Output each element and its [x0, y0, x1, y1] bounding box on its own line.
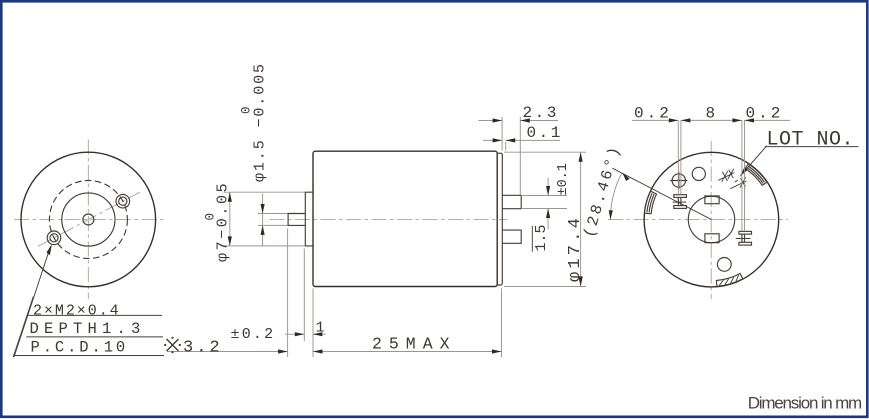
- rear top dim lines: [632, 119, 790, 121]
- dim phi1.5 arrows (outside, pointing to shaft edges): [261, 204, 265, 214]
- dim 25MAX line: [313, 351, 502, 353]
- mounting hole M2 upper right : outer thread circle: [116, 194, 130, 208]
- dim 0.1 line: [483, 139, 560, 141]
- svg-text:8: 8: [706, 104, 716, 122]
- front bearing boss circle (phi7): [62, 193, 115, 246]
- svg-text:1: 1: [316, 320, 325, 337]
- dim phi7 arrows (inside): [228, 192, 232, 202]
- dim terminal arrows: [546, 186, 550, 196]
- svg-text:2.3: 2.3: [523, 104, 559, 122]
- front bearing boss: [305, 192, 313, 246]
- extension lines phi17.4 (right): [504, 152, 586, 286]
- extension line terminal tip up (x520.3): [519, 117, 521, 195]
- rear view outer circle: [644, 152, 779, 287]
- mounting hole M2 upper right : inner circle: [119, 197, 127, 205]
- svg-text:0: 0: [240, 106, 254, 114]
- extension line mounting face (x313): [312, 289, 314, 358]
- terminal lower (side view): [502, 230, 521, 243]
- leader arrowhead at hole: [47, 245, 52, 256]
- rotated label phi17.4: [566, 215, 585, 282]
- small circle top: [692, 167, 705, 180]
- svg-text:0.2: 0.2: [746, 104, 784, 122]
- leader arrowhead: [740, 167, 748, 177]
- dim phi17.4 vertical line: [580, 152, 582, 286]
- terminal T2 (rear view, I-beam shape): [736, 231, 752, 245]
- rear view vertical centerline: [710, 141, 712, 299]
- rear top dim arrows: [669, 118, 679, 122]
- rear ext line pair for T2: [742, 120, 745, 231]
- svg-text:Dimension in mm: Dimension in mm: [748, 394, 862, 413]
- svg-text:2×M2×0.4: 2×M2×0.4: [33, 302, 121, 319]
- terminal upper (side view): [502, 195, 521, 208]
- dim 2.3 arrows: [493, 118, 503, 122]
- svg-text:25MAX: 25MAX: [372, 335, 457, 354]
- dim phi1.5 vertical line: [262, 194, 264, 247]
- dim 3.2 line with arrow at shaft tip: [167, 351, 288, 353]
- svg-text:±0.2: ±0.2: [231, 326, 276, 343]
- rim slot left (louver with parallel lines): [645, 191, 657, 214]
- rotated label 1.5 (terminal): [533, 224, 550, 251]
- extension line right of 0.1 (x505.7): [505, 142, 507, 151]
- motor body rectangle: [313, 151, 497, 286]
- front view outer circle (motor case phi17.4): [21, 152, 156, 287]
- hatch lines in bottom slot: [719, 275, 738, 285]
- svg-text:0: 0: [204, 213, 218, 221]
- lot number stamp glyphs (XX-X): [718, 169, 746, 189]
- underline row2: [26, 336, 163, 338]
- extension lines phi1.5 (left of shaft): [258, 214, 288, 226]
- dim 0.1 arrows: [493, 138, 503, 142]
- LOT NO. underline: [765, 146, 859, 148]
- arc arrowheads: [609, 210, 613, 220]
- extension line rear end (x501.5): [501, 289, 503, 358]
- radial line at 28.46deg through terminal: [613, 168, 712, 219]
- leader line from LOT NO. to stamp: [741, 146, 767, 175]
- front view diagonal centerline through mounting holes: [38, 192, 140, 246]
- P.C.D.10 dashed bolt circle: [49, 181, 127, 259]
- upper deviation 0 of phi7: [204, 213, 218, 221]
- svg-text:φ1.5 −0.005: φ1.5 −0.005: [252, 62, 269, 182]
- mounting hole M2 lower left : inner circle: [50, 234, 58, 242]
- underline row1: [28, 314, 162, 316]
- extension line shaft tip (x287.6): [287, 229, 289, 358]
- svg-text:LOT NO.: LOT NO.: [767, 128, 855, 151]
- rotated label phi7 with tolerance: [215, 181, 232, 262]
- slanted border line of note block: [13, 297, 33, 358]
- dim phi17.4 arrows: [579, 152, 583, 162]
- small line beside 1.5 label: [531, 226, 533, 252]
- front view vertical centerline: [87, 140, 89, 300]
- extension lines phi7 (left of boss): [224, 192, 305, 246]
- rim slot bottom (louver with hatch): [716, 274, 742, 287]
- rotated label phi1.5 with tolerance: [252, 62, 269, 182]
- extension line cap face up (x502.1): [501, 117, 503, 151]
- top notch of center boss: [705, 196, 719, 204]
- angle dimension arc 28.46deg: [610, 173, 622, 220]
- svg-text:0.2: 0.2: [634, 104, 672, 122]
- terminal T1 (rear view, I-beam shape): [673, 195, 687, 209]
- side view horizontal centerline: [270, 219, 508, 221]
- leader line from lower-left hole to note text: [14, 246, 51, 357]
- upper deviation 0 of phi1.5: [240, 106, 254, 114]
- small circle bottom: [717, 258, 731, 272]
- extension line boss face (x304.3): [303, 249, 305, 342]
- dim phi7 vertical line: [229, 192, 231, 246]
- 25MAX arrows: [313, 349, 323, 353]
- rear view horizontal centerline: [608, 219, 788, 221]
- mounting hole M2 lower left : outer thread circle: [47, 231, 61, 245]
- underline row3: [13, 355, 164, 357]
- reference mark (kome) of 3.2: [164, 337, 181, 354]
- plus polarity mark circle with cross: [670, 172, 687, 189]
- svg-text:3.2: 3.2: [183, 338, 223, 357]
- bottom notch of center boss: [705, 234, 719, 243]
- svg-text:P.C.D.10: P.C.D.10: [31, 339, 129, 357]
- extension lines terminal 1.5 dim (right of terminal): [521, 196, 567, 209]
- rear ext line pair for T1: [678, 120, 681, 194]
- front view horizontal centerline: [14, 219, 165, 221]
- rim slot top-right (louver with parallel lines): [745, 164, 767, 186]
- rear end cap: [497, 153, 502, 285]
- shaft circle (phi1.5): [83, 214, 94, 225]
- angle text (28.46deg) rotated: [580, 142, 625, 239]
- svg-text:1.5: 1.5: [533, 224, 550, 251]
- dim terminal 1.5 vertical line: [547, 178, 549, 229]
- svg-text:DEPTH1.3: DEPTH1.3: [30, 320, 146, 338]
- dim 1 (boss length) line and arrows: [285, 333, 326, 335]
- dim 2.3 line: [479, 120, 559, 122]
- svg-text:±0.1: ±0.1: [556, 163, 571, 195]
- motor shaft: [288, 214, 305, 226]
- rotated label +-0.1 (terminal): [556, 163, 571, 195]
- rear center boss circle: [688, 196, 734, 242]
- svg-text:0.1: 0.1: [527, 124, 563, 142]
